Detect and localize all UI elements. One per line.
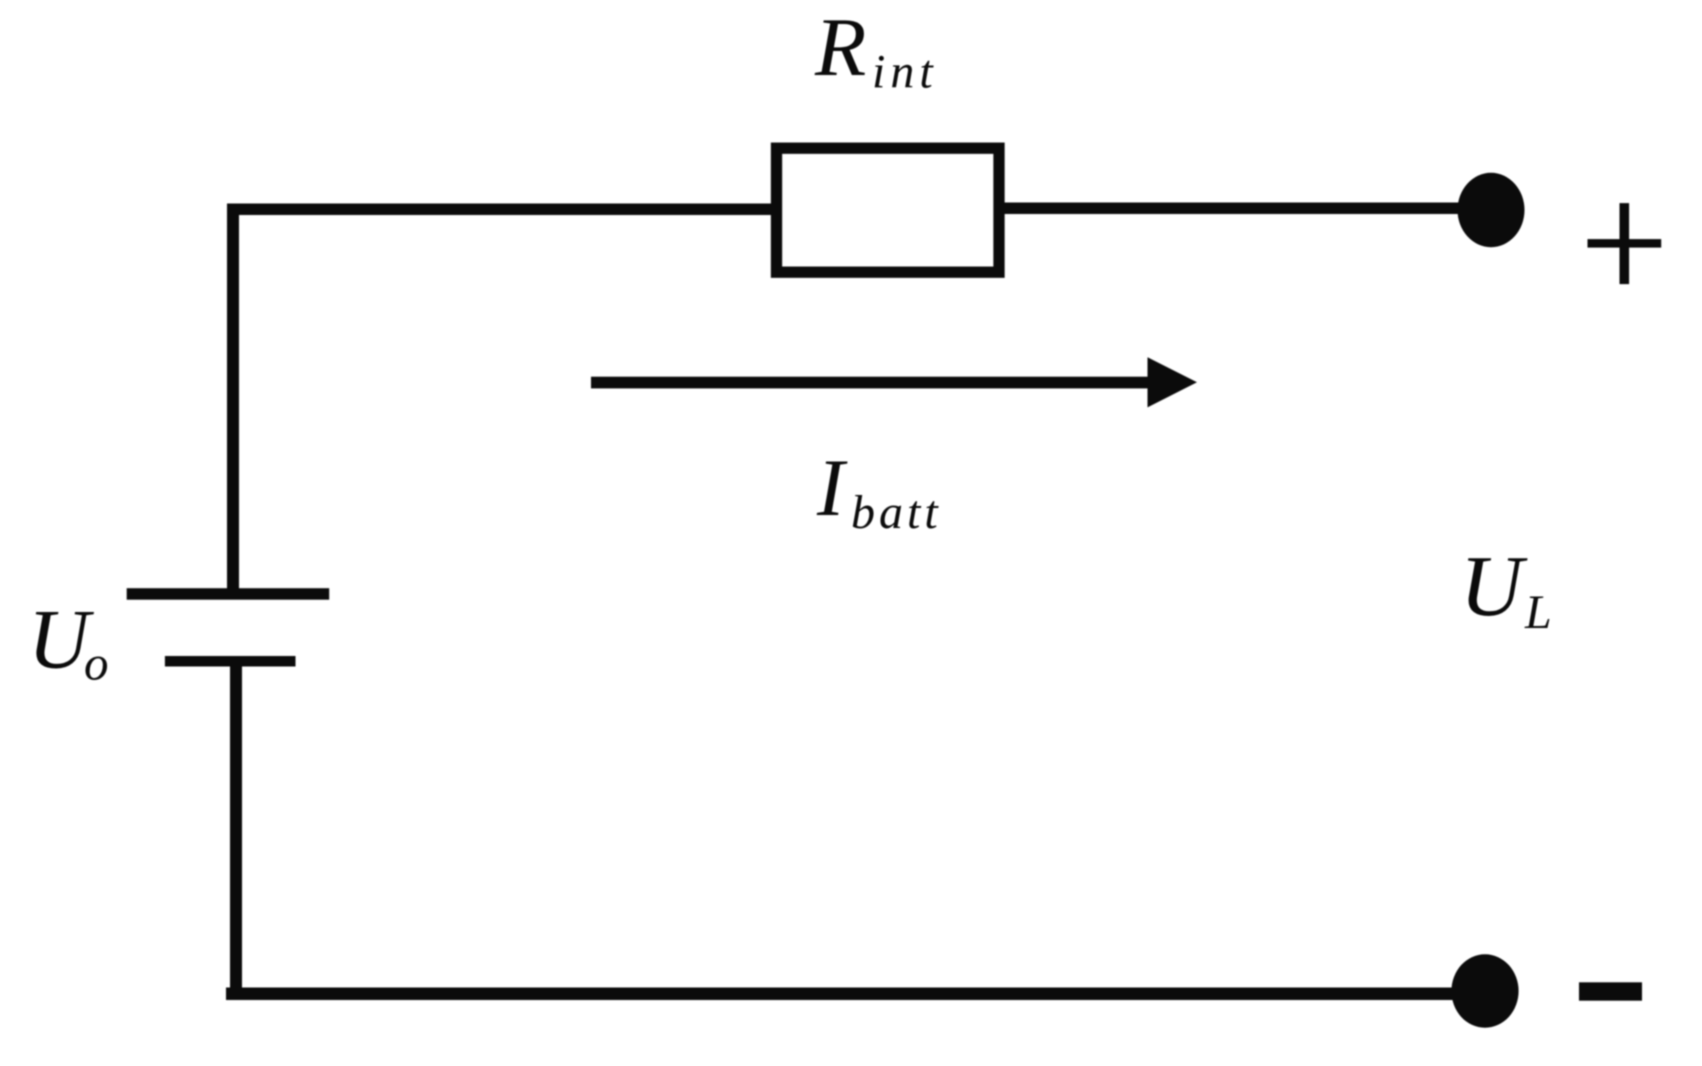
svg-text:batt: batt xyxy=(851,486,942,539)
svg-text:U: U xyxy=(1460,537,1528,634)
minus sign xyxy=(1579,982,1642,1000)
wire: left vertical (battery top to top rail) xyxy=(227,204,239,589)
label I_batt xyxy=(816,442,942,539)
label U_L xyxy=(1460,537,1552,639)
battery U_o: short plate (negative) xyxy=(165,656,296,667)
svg-text:I: I xyxy=(816,442,848,533)
wire: top rail right segment xyxy=(1004,203,1491,215)
svg-text:L: L xyxy=(1524,586,1552,639)
wire: left vertical (battery bottom to bottom rail) xyxy=(230,666,242,1000)
svg-text:o: o xyxy=(84,636,109,691)
wire: bottom rail xyxy=(226,988,1485,1001)
node: positive terminal dot xyxy=(1458,173,1525,247)
node: negative terminal dot xyxy=(1451,954,1518,1027)
svg-text:int: int xyxy=(872,46,938,99)
battery U_o: long plate (positive) xyxy=(127,588,330,600)
resistor R_int box xyxy=(777,148,1000,272)
svg-text:R: R xyxy=(814,1,866,94)
wire: top rail left segment xyxy=(227,204,771,216)
current arrow I_batt xyxy=(591,357,1197,407)
label R_int xyxy=(814,1,938,99)
plus sign xyxy=(1588,203,1662,284)
label U_o xyxy=(28,593,109,691)
